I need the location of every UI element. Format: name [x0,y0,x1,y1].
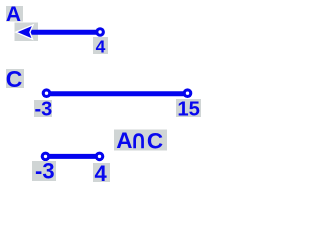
arrowhead of ray A [16,25,33,39]
label A∩C : intersection symbol [133,133,144,148]
ray A wire [26,30,100,35]
svg-text:C: C [147,128,163,153]
svg-text:-3: -3 [35,158,55,183]
label box 15 [176,99,201,117]
label box -3 (middle) [34,100,52,117]
label box -3 (bottom) [32,161,56,181]
label box A∩C [114,130,167,151]
segment C wire [47,91,188,96]
svg-text:C: C [6,66,23,92]
label box 4 (top) [93,37,108,54]
endpoint dot x=15 on segment C [183,88,193,98]
label box 4 (bottom) [93,163,110,182]
label box A [6,6,23,22]
label box C [6,69,24,88]
endpoint dot x=-3 on segment A∩C [41,152,51,162]
svg-text:A: A [116,128,132,153]
endpoint dot x=4 on segment A∩C [95,152,105,162]
svg-text:4: 4 [95,161,108,186]
svg-text:4: 4 [96,37,106,57]
label box arrowhead [15,23,39,42]
endpoint dot x=4 on ray A [95,27,105,37]
endpoint dot x=-3 on segment C [42,88,52,98]
svg-text:15: 15 [177,98,200,120]
segment A∩C wire [46,154,100,159]
svg-text:-3: -3 [35,99,53,121]
